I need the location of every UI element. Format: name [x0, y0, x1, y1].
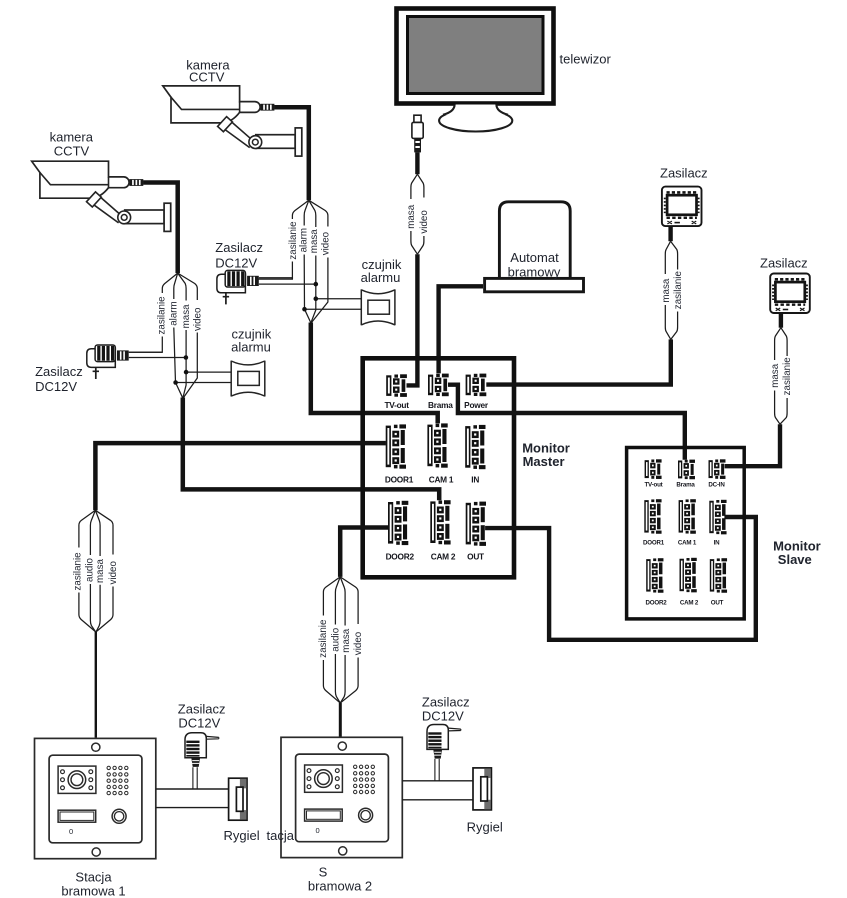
wire Brama to Automat bramowy [439, 286, 483, 373]
svg-text:DOOR1: DOOR1 [385, 474, 414, 484]
svg-text:IN: IN [471, 474, 479, 484]
svg-text:tacja: tacja [267, 828, 295, 843]
svg-text:alarmu: alarmu [361, 270, 401, 285]
RCA video plug to TV [412, 115, 423, 152]
svg-text:video: video [108, 561, 119, 585]
svg-text:CCTV: CCTV [189, 70, 225, 85]
svg-text:Zasilacz: Zasilacz [178, 702, 226, 717]
svg-text:CCTV: CCTV [54, 143, 90, 158]
door station Stacja bramowa 1 [35, 738, 156, 858]
wire camera1 cable [143, 183, 178, 274]
svg-text:Power: Power [464, 400, 489, 410]
wire Power to PSU1 [486, 339, 671, 384]
svg-text:Zasilacz: Zasilacz [35, 364, 83, 379]
svg-text:DOOR1: DOOR1 [643, 539, 665, 546]
svg-text:zasilanie: zasilanie [318, 619, 329, 658]
junction dot sensor-right masa [314, 296, 319, 301]
wire OUT master to IN slave [485, 517, 756, 640]
svg-text:DOOR2: DOOR2 [645, 599, 667, 606]
svg-text:zasilanie: zasilanie [157, 296, 168, 335]
svg-text:alarmu: alarmu [231, 339, 271, 354]
svg-text:audio: audio [85, 557, 96, 582]
svg-text:OUT: OUT [711, 599, 724, 606]
svg-text:DC12V: DC12V [422, 709, 464, 724]
svg-text:Automat: Automat [510, 250, 559, 265]
Automat bramowy gate controller [485, 202, 584, 292]
svg-text:Rygiel: Rygiel [467, 820, 503, 835]
connector Power (master) [466, 374, 487, 397]
camera CCTV 2 (upper) [163, 86, 302, 156]
wire PSU1 stub [668, 226, 672, 241]
wire TV cable to TV-out [407, 254, 418, 385]
wire station2 drop cable [339, 703, 342, 738]
wire adapter2 masa [259, 283, 316, 285]
junction dot adapter2-masa [314, 282, 319, 287]
wire sensor-left alarm [176, 382, 232, 384]
wire adapter1 masa [129, 357, 186, 359]
wire adapter2 zasilanie [259, 278, 293, 279]
wire station2 to rygiel upper [402, 780, 473, 782]
junction dot sensor-left alarm [173, 380, 178, 385]
svg-text:Brama: Brama [676, 481, 695, 488]
svg-text:CAM 1: CAM 1 [429, 474, 454, 484]
power adapter Zasilacz DC12V (camera2) [217, 270, 259, 304]
svg-text:alarm: alarm [299, 228, 310, 253]
connector DC-IN (slave) [709, 459, 726, 479]
svg-text:DC12V: DC12V [215, 256, 257, 271]
svg-text:video: video [353, 631, 364, 655]
camera CCTV 1 (left) [32, 161, 171, 231]
connector OUT (slave) [710, 558, 727, 593]
wire DC-IN slave to PSU2 [725, 424, 780, 466]
svg-text:OUT: OUT [467, 551, 484, 561]
svg-text:DOOR2: DOOR2 [386, 551, 415, 561]
cable pair split masa/zasilanie (PSU2) [775, 328, 788, 425]
connector IN (master) [465, 425, 485, 469]
svg-text:alarm: alarm [168, 301, 179, 326]
svg-text:telewizor: telewizor [560, 52, 612, 67]
wire adapter station2 twin cable [435, 759, 439, 781]
svg-text:masa: masa [770, 363, 781, 388]
wire TV plug cable upper [415, 152, 419, 174]
fanout camera1 wires [129, 273, 198, 398]
junction dot sensor-left masa [184, 370, 189, 375]
svg-text:S: S [319, 864, 328, 879]
cable pair split masa/zasilanie (PSU1) [665, 241, 677, 339]
connector DOOR2 (master) [388, 501, 408, 545]
wire camera2 cable [274, 107, 309, 200]
svg-text:Monitor: Monitor [522, 440, 570, 455]
wire camera2 trunk to CAM1 [311, 323, 438, 424]
svg-text:Master: Master [523, 454, 565, 469]
svg-text:Rygiel: Rygiel [224, 828, 260, 843]
connector TV-out (slave) [645, 459, 662, 479]
electric strike Rygiel 2 [473, 768, 491, 810]
svg-text:zasilanie: zasilanie [673, 271, 684, 310]
svg-text:masa: masa [181, 304, 192, 329]
junction dot sensor-right alarm [302, 307, 307, 312]
Monitor Slave box [627, 448, 745, 619]
svg-text:Zasilacz: Zasilacz [422, 695, 470, 710]
electric strike Rygiel 1 [229, 778, 247, 820]
svg-text:Zasilacz: Zasilacz [760, 256, 808, 271]
svg-text:Zasilacz: Zasilacz [215, 240, 263, 255]
svg-text:IN: IN [714, 539, 721, 546]
svg-text:bramowa 2: bramowa 2 [308, 878, 372, 893]
svg-text:TV-out: TV-out [644, 481, 662, 488]
svg-text:zasilanie: zasilanie [782, 357, 793, 396]
connector CAM2 (slave) [680, 558, 697, 593]
connector OUT (master) [466, 502, 486, 546]
power adapter Zasilacz DC12V (camera1) [87, 345, 129, 379]
svg-text:masa: masa [341, 628, 352, 653]
wire camera1 trunk to CAM2 [183, 398, 439, 501]
televisor TV set [397, 9, 554, 132]
svg-text:CAM 1: CAM 1 [678, 539, 697, 546]
svg-text:DC12V: DC12V [178, 716, 220, 731]
connector DOOR2 (slave) [646, 558, 663, 593]
wire station2 to rygiel lower [402, 799, 473, 801]
wire station1 drop cable [95, 632, 97, 738]
power adapter Zasilacz DC12V (station2) [427, 725, 461, 759]
svg-text:audio: audio [331, 627, 342, 652]
junction dot adapter1-masa [184, 355, 189, 360]
svg-text:video: video [419, 210, 430, 234]
wire sensor-right alarm [305, 308, 362, 310]
wire PSU2 stub [779, 313, 783, 328]
cable pair split masa/video (TV) [411, 174, 424, 254]
connector CAM1 (slave) [679, 499, 696, 534]
svg-text:Stacja: Stacja [75, 869, 112, 884]
wire DOOR2 to station2 [340, 528, 388, 577]
connector DOOR1 (slave) [644, 499, 661, 534]
connector CAM2 (master) [430, 500, 450, 544]
alarm sensor czujnik alarmu (right) [361, 289, 395, 325]
wire adapter1 zasilanie [129, 351, 163, 353]
wire sensor-right masa [316, 298, 362, 300]
power adapter Zasilacz DC12V (station1) [185, 733, 219, 767]
connector Brama (slave) [678, 460, 695, 480]
wire adapter station1 twin cable [193, 767, 197, 789]
svg-text:kamera: kamera [50, 130, 94, 145]
svg-text:CAM 2: CAM 2 [431, 551, 456, 561]
broom fanout station2 wires [323, 577, 358, 703]
connector IN (slave) [709, 500, 726, 535]
wire station1 to rygiel upper [156, 788, 229, 790]
svg-text:masa: masa [406, 204, 417, 229]
svg-text:Brama: Brama [428, 400, 453, 410]
svg-text:CAM 2: CAM 2 [680, 599, 699, 606]
power supply PSU1 Zasilacz (top) [662, 187, 702, 227]
svg-text:masa: masa [309, 229, 320, 254]
broom fanout station1 wires [79, 510, 113, 632]
wire Brama master to Brama slave [448, 385, 685, 460]
alarm sensor czujnik alarmu (left) [231, 361, 265, 397]
power supply PSU2 Zasilacz (right) [770, 274, 810, 314]
connector DOOR1 (master) [386, 424, 406, 468]
wire station1 to rygiel lower [156, 807, 229, 809]
svg-text:DC12V: DC12V [35, 379, 77, 394]
svg-text:TV-out: TV-out [384, 400, 409, 410]
connector TV-out (master) [386, 374, 407, 397]
svg-text:masa: masa [661, 278, 672, 303]
fanout camera2 wires [256, 200, 328, 323]
svg-text:video: video [320, 231, 331, 255]
svg-text:bramowa 1: bramowa 1 [61, 884, 125, 898]
svg-text:Zasilacz: Zasilacz [660, 166, 708, 181]
svg-text:DC-IN: DC-IN [708, 481, 725, 488]
svg-text:Slave: Slave [778, 552, 812, 567]
wire DOOR1 to station1 [95, 443, 386, 510]
svg-text:bramowy: bramowy [508, 264, 561, 279]
Monitor Master box [363, 358, 514, 577]
svg-text:video: video [193, 307, 204, 331]
svg-text:zasilanie: zasilanie [288, 221, 299, 260]
svg-text:zasilanie: zasilanie [72, 552, 83, 591]
wire sensor-left masa [186, 371, 231, 373]
door station Stacja bramowa 2 [281, 737, 402, 857]
connector CAM1 (master) [427, 423, 447, 467]
svg-text:masa: masa [95, 558, 106, 583]
connector Brama (master) [428, 374, 449, 397]
